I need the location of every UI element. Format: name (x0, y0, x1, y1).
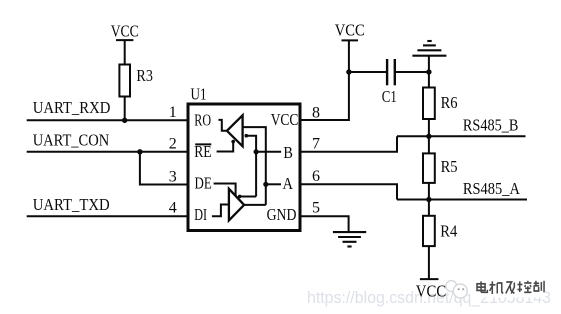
watermark logo icon (446, 281, 467, 298)
wire UART_CON to pin 2 (27, 151, 188, 153)
svg-text:3: 3 (169, 169, 177, 186)
resistor R3 (119, 65, 130, 97)
node receiver lower input dot (245, 134, 249, 138)
svg-text:DI: DI (194, 205, 207, 224)
wire pin 6 to RS485_A (300, 184, 397, 199)
wire UART_RXD to pin 1 (27, 119, 188, 121)
resistor R6 (423, 88, 435, 120)
wire RO hook (219, 120, 227, 131)
svg-text:R5: R5 (441, 157, 458, 176)
wire UART_TXD to pin 4 (27, 215, 188, 217)
svg-text:RS485_B: RS485_B (463, 116, 519, 135)
wire DI hook (212, 205, 229, 217)
wire DE hook (214, 184, 236, 196)
svg-text:DE: DE (195, 173, 212, 192)
wire pin 7 to RS485_B (300, 136, 397, 152)
watermark white glow backing (471, 278, 545, 298)
wire receiver input upper (243, 127, 266, 205)
junction dot A/vertical (263, 182, 268, 187)
op-amp U1 chip body (188, 104, 300, 231)
junction dot CON branch (137, 149, 142, 154)
VCC symbol bottom (inverted) (420, 278, 439, 280)
capacitor C1 (349, 71, 387, 73)
resistor R4 (428, 200, 430, 216)
ground (pin 5) (333, 232, 366, 246)
svg-text:4: 4 (169, 200, 177, 217)
junction dot A row (426, 197, 431, 202)
svg-text:UART_CON: UART_CON (33, 131, 110, 150)
wire A internal (266, 183, 281, 185)
wire driver output (244, 204, 266, 206)
glyph ji2 (506, 282, 515, 294)
receiver triangle (227, 115, 243, 146)
svg-text:UART_RXD: UART_RXD (33, 98, 111, 117)
svg-text:7: 7 (312, 135, 320, 152)
svg-text:2: 2 (169, 136, 177, 153)
VCC symbol top-left (116, 40, 133, 64)
VCC symbol top-middle (342, 40, 359, 72)
svg-text:RO: RO (194, 111, 211, 130)
svg-text:R3: R3 (136, 66, 153, 85)
junction dot VCC/C1/pin8 (346, 69, 351, 74)
svg-text:A: A (283, 174, 294, 193)
svg-text:R4: R4 (440, 222, 457, 241)
svg-text:UART_TXD: UART_TXD (33, 195, 110, 214)
ground top-right (earth, inverted) (412, 41, 446, 56)
node RE enable dot (231, 140, 235, 144)
wire B internal (256, 151, 281, 153)
svg-text:R6: R6 (441, 93, 458, 112)
glyph kong (518, 281, 532, 293)
svg-text:VCC: VCC (111, 21, 139, 40)
svg-text:6: 6 (312, 168, 320, 185)
wire branch to pin 3 (140, 152, 188, 185)
svg-text:VCC: VCC (335, 20, 365, 39)
glyph ji (490, 281, 504, 294)
svg-text:VCC: VCC (271, 110, 299, 129)
wire receiver input lower (246, 136, 256, 197)
glyph dian (477, 281, 487, 292)
svg-text:5: 5 (312, 200, 320, 217)
junction dot B/vertical (254, 149, 259, 154)
resistor R5 (428, 136, 430, 153)
transistor driver triangle (229, 189, 244, 221)
wire driver inverted tap (240, 196, 256, 198)
wire RS485_B (397, 135, 526, 137)
svg-text:RS485_A: RS485_A (463, 179, 520, 198)
svg-text:GND: GND (267, 205, 297, 224)
junction dot B row (426, 134, 431, 139)
junction dot R3/RXD (122, 118, 127, 123)
svg-text:U1: U1 (191, 85, 207, 104)
wire pin 8 to VCC (300, 72, 349, 120)
glyph zhi (534, 281, 544, 293)
svg-text:C1: C1 (382, 87, 397, 106)
node driver tap dot (238, 195, 242, 199)
svg-text:VCC: VCC (416, 281, 446, 300)
svg-text:B: B (283, 143, 293, 162)
wire RS485_A (397, 199, 527, 201)
wire pin 5 to ground (300, 216, 349, 232)
junction dot gnd/C1/R6 (426, 69, 431, 74)
watermark CJK text 电机及控制 (477, 281, 544, 294)
wire RE hook (217, 143, 234, 152)
svg-text:1: 1 (169, 104, 177, 121)
